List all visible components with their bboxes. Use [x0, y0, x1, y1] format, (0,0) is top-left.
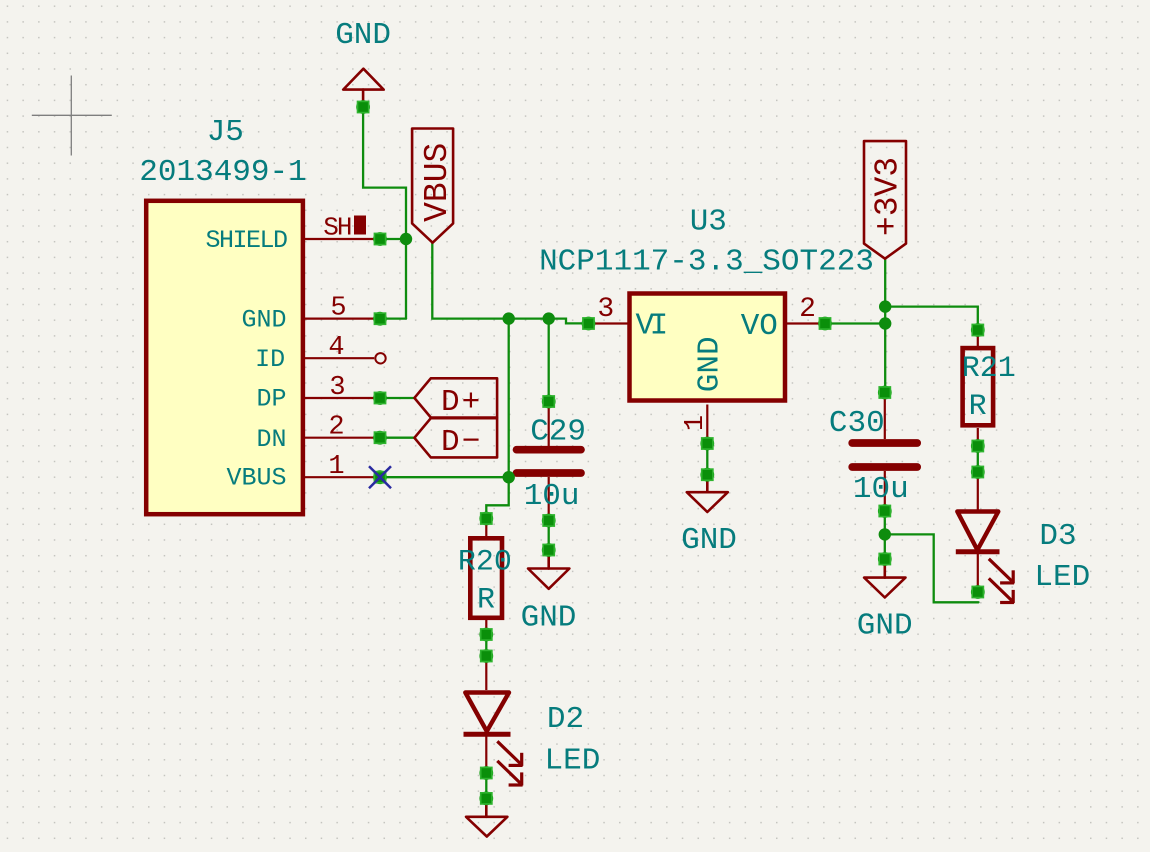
pin number 3 [329, 373, 345, 403]
wire [825, 322, 885, 324]
text R value R20 [477, 584, 495, 618]
svg-text:U3: U3 [690, 205, 727, 240]
power symbol GND under C29 [528, 552, 569, 589]
svg-text:GND: GND [335, 18, 391, 53]
wire [508, 319, 510, 478]
svg-text:GND: GND [681, 523, 737, 558]
text GND under U3 [681, 523, 737, 558]
regulator U3 body [630, 294, 786, 401]
svg-text:C30: C30 [829, 406, 885, 441]
regulator U3 pin 1 GND [706, 405, 708, 439]
connector J5 pin 1 VBUS [305, 476, 376, 478]
power symbol GND under D2 [466, 800, 507, 837]
regulator U3 pin 3 VI [589, 322, 628, 324]
wire [977, 446, 979, 472]
svg-text:NCP1117-3.3_SOT223: NCP1117-3.3_SOT223 [539, 244, 874, 279]
text C30 [829, 406, 885, 441]
text 2013499-1 [139, 155, 306, 190]
wire [380, 397, 414, 399]
junction [879, 528, 891, 540]
svg-text:D3: D3 [1039, 519, 1076, 554]
wire [548, 521, 550, 551]
connector J5 pin 2 DN [305, 437, 376, 439]
text 10u C29 [524, 479, 580, 514]
svg-text:4: 4 [328, 333, 344, 363]
text D2 [547, 702, 584, 737]
svg-text:D+: D+ [441, 385, 482, 420]
pin number SH [323, 212, 366, 242]
pin number 2 [328, 413, 344, 443]
text R21 [962, 352, 1016, 386]
wire [706, 444, 708, 475]
svg-text:J5: J5 [207, 115, 244, 150]
connector J5 pin SHIELD [305, 238, 376, 240]
svg-text:GND: GND [857, 609, 913, 644]
svg-text:GND: GND [241, 305, 286, 334]
text NCP1117-3.3_SOT223 [539, 244, 874, 279]
svg-text:2: 2 [328, 413, 344, 443]
svg-text:VBUS: VBUS [226, 463, 286, 492]
svg-text:SH: SH [323, 212, 351, 242]
text GND under C29 [521, 600, 577, 635]
svg-text:D2: D2 [547, 702, 584, 737]
wire [485, 635, 487, 657]
connector J5 pin 3 DP [305, 397, 376, 399]
svg-text:R20: R20 [458, 546, 512, 580]
pin name DN [256, 425, 286, 454]
svg-text:R: R [477, 584, 495, 618]
svg-text:3: 3 [329, 373, 345, 403]
pin name VBUS [226, 463, 286, 492]
text 10u C30 [853, 472, 909, 507]
junction [543, 312, 555, 324]
svg-text:VBUS: VBUS [419, 143, 456, 222]
text D+ [441, 385, 482, 420]
wire [486, 477, 508, 518]
svg-text:5: 5 [330, 294, 346, 324]
svg-text:10u: 10u [853, 472, 909, 507]
global label VBUS [412, 129, 453, 243]
wire [485, 773, 487, 798]
junction [879, 300, 891, 312]
text R20 [458, 546, 512, 580]
wire [885, 534, 979, 602]
svg-text:2013499-1: 2013499-1 [139, 155, 306, 190]
text VBUS vertical [419, 143, 456, 222]
wire [432, 243, 588, 323]
svg-text:VI: VI [636, 309, 666, 344]
text D- [441, 425, 482, 460]
pin name ID [255, 345, 285, 374]
svg-text:SHIELD: SHIELD [205, 226, 287, 255]
svg-text:R21: R21 [962, 352, 1016, 386]
wire [380, 476, 509, 478]
svg-text:3: 3 [597, 294, 614, 325]
wire [884, 259, 886, 393]
no-connect cross [369, 466, 391, 488]
hierarchical label D- [414, 418, 497, 457]
capacitor C30 [852, 395, 917, 510]
pin end markers [356, 100, 984, 805]
wire [363, 107, 406, 319]
resistor R20 [470, 521, 502, 634]
LED D2 [464, 658, 523, 786]
svg-text:GND: GND [693, 336, 728, 392]
pin number 4 [328, 333, 344, 363]
connector J5 body [146, 201, 303, 514]
svg-text:LED: LED [544, 744, 600, 779]
power label +3V3 [864, 141, 906, 259]
pin number 3 U3 [597, 294, 614, 325]
svg-text:1: 1 [681, 415, 711, 431]
svg-text:10u: 10u [524, 479, 580, 514]
pin name VO [741, 309, 778, 344]
hierarchical label D+ [414, 378, 497, 417]
svg-text:DN: DN [256, 425, 286, 454]
junction [879, 317, 891, 329]
connector J5 pin 4 ID [305, 353, 386, 363]
text LED D3 [1034, 560, 1090, 595]
svg-text:1: 1 [328, 452, 344, 482]
power symbol GND top [343, 69, 384, 104]
regulator U3 pin 2 VO [787, 322, 825, 324]
junction [400, 233, 412, 245]
text D3 [1039, 519, 1076, 554]
wire [380, 437, 414, 439]
pin name GND [241, 305, 286, 334]
svg-text:D−: D− [441, 425, 482, 460]
resistor R21 [963, 331, 994, 444]
pin number 1 U3 vertical [681, 415, 711, 431]
text U3 [690, 205, 727, 240]
text +3V3 vertical [870, 157, 907, 236]
svg-text:DP: DP [256, 385, 286, 414]
pin name DP [256, 385, 286, 414]
svg-text:2: 2 [799, 294, 816, 325]
svg-text:R: R [969, 390, 987, 424]
wire [380, 317, 406, 319]
pin number 2 U3 [799, 294, 816, 325]
power symbol GND under C30 [864, 561, 905, 598]
power symbol GND under U3 [687, 476, 728, 512]
pin name SHIELD [205, 226, 287, 255]
svg-text:GND: GND [521, 600, 577, 635]
junction [503, 312, 515, 324]
svg-text:LED: LED [1034, 560, 1090, 595]
pin number 5 [330, 294, 346, 324]
svg-text:+3V3: +3V3 [870, 157, 907, 236]
svg-text:VO: VO [741, 309, 778, 344]
LED D3 [956, 474, 1014, 603]
svg-text:ID: ID [255, 345, 285, 374]
capacitor C29 [517, 403, 582, 518]
text GND top [335, 18, 391, 53]
text LED D2 [544, 744, 600, 779]
junction [503, 471, 515, 483]
wire [885, 307, 978, 330]
wire [884, 511, 886, 559]
pin name VI [636, 309, 666, 344]
text J5 [207, 115, 244, 150]
connector J5 pin 5 GND [305, 318, 376, 320]
svg-text:C29: C29 [530, 414, 586, 449]
text GND under C30 [857, 609, 913, 644]
pin number 1 [328, 452, 344, 482]
pin name GND vertical [693, 336, 728, 392]
text C29 [530, 414, 586, 449]
wire [380, 238, 406, 240]
wire [548, 319, 550, 402]
text R value R21 [969, 390, 987, 424]
